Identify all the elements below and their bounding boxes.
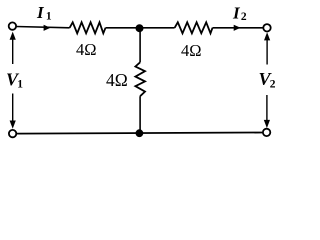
node: bottom junction dot [136,129,144,137]
terminal: port 2 bottom (open circle) [263,129,270,136]
terminal: port 2 top (open circle) [263,24,270,31]
terminal: port 1 bottom (open circle) [9,130,16,137]
resistor R3 4ohm (shunt) [135,62,145,96]
wire: top rail left segment (port1 to R1) [16,27,70,28]
wire: top rail middle segment (R1 to R2 through node) [106,27,175,29]
svg-text:4Ω: 4Ω [181,41,202,60]
resistor R1 4ohm (top-left series) [70,22,106,33]
svg-text:4Ω: 4Ω [106,70,128,90]
resistor R2 4ohm (top-right series) [175,22,213,33]
voltage V2 lower arrow (points down to port2 bottom) [266,95,268,123]
svg-text:I: I [232,4,241,23]
node: top junction dot [136,24,144,32]
svg-text:I: I [36,3,45,22]
svg-text:1: 1 [17,79,23,91]
terminal: port 1 top (open circle) [9,22,16,29]
svg-text:2: 2 [270,79,276,91]
wire: shunt upper segment (top node to R3) [139,28,141,62]
svg-text:2: 2 [241,11,247,23]
current arrow I1 head [44,25,51,31]
wire: top rail right segment (R2 to port2) [213,27,264,29]
current arrow I2 head [234,25,241,31]
voltage V1 lower arrow (points down to port1 bottom) [12,94,14,124]
voltage V2 upper arrow (points up to port2 top) [266,38,268,65]
svg-text:4Ω: 4Ω [76,40,97,59]
wire: bottom rail [17,133,263,134]
voltage V1 upper arrow (points up to port1 top) [12,37,14,64]
wire: shunt lower segment (R3 to bottom node) [139,96,141,133]
svg-text:1: 1 [46,11,52,23]
